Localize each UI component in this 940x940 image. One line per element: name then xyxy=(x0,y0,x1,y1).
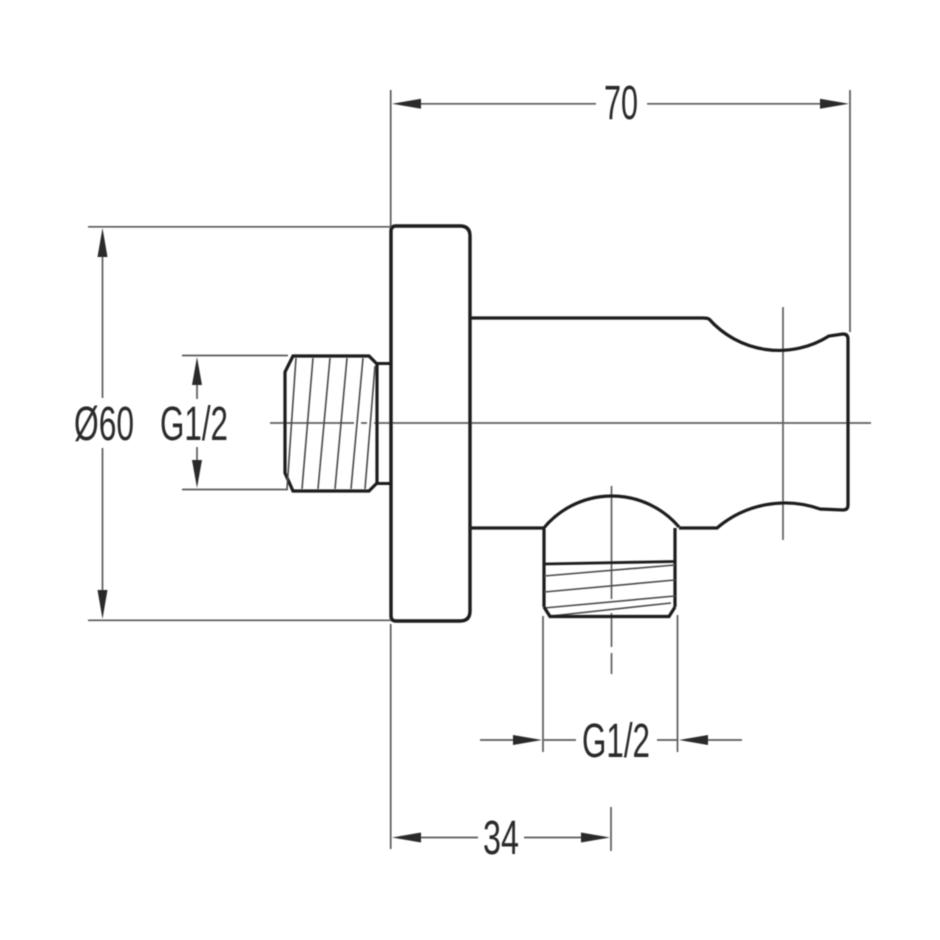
dim G1/2 left arrow up xyxy=(192,357,202,385)
outlet thread crest line xyxy=(544,562,675,565)
dim O60 arrow top xyxy=(98,228,108,257)
svg-text:G1/2: G1/2 xyxy=(582,715,650,768)
dim O60 arrow bottom xyxy=(98,590,108,619)
pipe top edge xyxy=(470,316,703,319)
dim 70 ext line left xyxy=(390,90,392,226)
holder bottom saddle arc xyxy=(679,503,843,528)
holder top saddle arc xyxy=(703,318,848,350)
dim G1/2 left ext top xyxy=(182,355,288,357)
dim 34 arrow left xyxy=(392,833,421,843)
svg-text:G1/2: G1/2 xyxy=(160,398,228,451)
centerline outlet vertical axis xyxy=(611,486,613,674)
threaded nipple body xyxy=(285,356,377,491)
svg-text:34: 34 xyxy=(483,812,519,865)
dim G1/2 bottom ext left xyxy=(542,616,544,752)
dim G1/2 bottom line left tail xyxy=(480,739,515,741)
dim 34 arrow right xyxy=(581,833,610,843)
dim 70 arrow left xyxy=(392,99,421,109)
dim G1/2 left line xyxy=(196,384,198,399)
outlet tube sides xyxy=(544,528,675,607)
centerline holder vertical axis xyxy=(782,307,784,540)
dim G1/2 left ext bottom xyxy=(182,489,288,491)
holder right edge xyxy=(843,339,848,510)
dim O60 ext top xyxy=(88,226,391,228)
outlet bottom edge xyxy=(544,607,675,617)
dim 70 line xyxy=(420,103,596,105)
dim G1/2 bottom line right tail xyxy=(657,739,677,741)
dim O60 ext bottom xyxy=(88,619,391,621)
wall plate xyxy=(391,226,470,621)
svg-text:Ø60: Ø60 xyxy=(74,398,134,451)
dim G1/2 bottom arrow left xyxy=(513,735,542,745)
nipple thread lines xyxy=(287,358,375,489)
dim 70 ext line right xyxy=(849,90,851,332)
pipe bottom edge left segment xyxy=(470,526,543,529)
dim 34 ext left xyxy=(390,624,392,849)
outlet dome xyxy=(543,496,679,529)
dim 34 ext right xyxy=(610,807,612,851)
outlet thread lines xyxy=(544,565,675,616)
dim 70 arrow right xyxy=(820,99,849,109)
dim 34 line xyxy=(420,837,478,839)
dim G1/2 bottom ext right xyxy=(677,615,679,752)
centerline horizontal axis xyxy=(270,422,871,424)
nipple neck xyxy=(377,364,391,484)
dim O60 line xyxy=(102,256,104,398)
svg-text:70: 70 xyxy=(604,77,638,130)
dim G1/2 left arrow down xyxy=(192,460,202,488)
dim G1/2 bottom arrow right xyxy=(679,735,708,745)
